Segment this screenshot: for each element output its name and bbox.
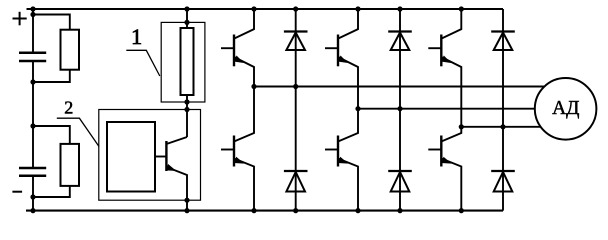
capacitor C1 [19, 53, 46, 61]
motor AD circle [535, 78, 597, 140]
diode VD1 [284, 32, 308, 51]
node VD5 on DC- [397, 208, 402, 213]
node VD4 on DC- [293, 208, 298, 213]
transistor VT6 emitter wire [441, 159, 461, 211]
wire left DC link upper segment [32, 9, 34, 53]
transistor VT1 base lead [221, 47, 234, 49]
transistor VT6 base bar [440, 136, 442, 167]
node VT1 on DC+ [251, 6, 256, 11]
transistor VT4 base bar [233, 136, 235, 167]
node wire crosses box2 top [184, 107, 189, 112]
node phase V at VD2 [397, 106, 402, 111]
node VT4 on DC- [251, 208, 256, 213]
wire phase line V [358, 108, 536, 110]
transistor VT7 base bar [165, 141, 167, 171]
wire left DC link lower segment [32, 176, 34, 211]
resistor R1 [61, 30, 80, 70]
wire brake column middle [186, 95, 188, 137]
box 1 brake resistor unit outline [161, 22, 205, 102]
transistor VT1 base bar [233, 35, 235, 67]
transistor VT7 emitter arrow [166, 164, 177, 171]
transistor VT3 emitter wire [441, 57, 461, 127]
wire R2 bottom lead [33, 186, 70, 197]
node C-midpoint R2 tap [30, 123, 35, 128]
transistor VT3 collector wire [441, 9, 461, 39]
resistor R2 [61, 144, 80, 186]
diode VD6 [491, 171, 515, 192]
resistor R3 (brake resistor) [181, 28, 194, 95]
transistor VT2 base bar [337, 35, 339, 67]
node phase U at VT1 [251, 84, 256, 89]
node R1 tap [30, 12, 35, 17]
svg-text:1: 1 [131, 24, 142, 49]
node phase U at VD1 [293, 84, 298, 89]
transistor VT3 base lead [428, 47, 441, 49]
transistor VT5 emitter wire [338, 159, 358, 211]
node DC+ / left link [30, 6, 35, 11]
diode VD3 [491, 32, 515, 51]
diode VD2 [388, 32, 412, 51]
transistor VT2 collector wire [338, 9, 358, 39]
wire negative DC bus (bottom) [26, 210, 503, 212]
transistor VT5 base lead [325, 149, 338, 151]
transistor VT2 emitter arrow [337, 55, 347, 63]
transistor VT4 emitter arrow [234, 157, 245, 164]
wire R1 top lead [33, 15, 70, 30]
transistor VT6 base lead [428, 149, 441, 151]
transistor VT5 base bar [337, 136, 339, 167]
transistor VT2 base lead [325, 47, 338, 49]
transistor VT4 collector wire [234, 87, 254, 142]
transistor VT4 base lead [221, 149, 234, 151]
node C1-R1 junction [30, 79, 35, 84]
wire positive DC bus (top) [27, 8, 504, 10]
wire diode column VD2/VD5 [399, 9, 401, 211]
wire left DC link middle segment [32, 61, 34, 168]
wire diode column VD1/VD4 [295, 9, 297, 211]
minus polarity symbol [12, 191, 22, 193]
wire phase line W [461, 126, 542, 128]
node VT5 on DC- [355, 208, 360, 213]
transistor VT3 base bar [440, 35, 442, 67]
transistor VT5 emitter arrow [338, 157, 349, 164]
diode VD5 [388, 171, 412, 192]
label 1 leader line [126, 50, 160, 76]
node phase W at VD3 [500, 124, 505, 129]
box 2 control unit outline [99, 110, 201, 201]
node VT3 on DC+ [459, 6, 464, 11]
node wire crosses box1 bottom [184, 99, 189, 104]
wire R2 top lead [33, 126, 70, 144]
transistor VT4 emitter wire [234, 159, 254, 211]
transistor VT7 collector wire [166, 137, 187, 144]
svg-text:АД: АД [552, 98, 579, 119]
transistor VT1 emitter wire [234, 57, 254, 87]
node VT2 on DC+ [355, 6, 360, 11]
node phase W at VT3 [459, 124, 464, 129]
transistor VT1 emitter arrow [233, 55, 243, 63]
label 2 leader line [57, 118, 99, 146]
transistor VT3 emitter arrow [441, 55, 451, 63]
node brake column on DC- [184, 208, 189, 213]
wire brake column top [186, 9, 188, 28]
wire R1 bottom lead [33, 70, 70, 82]
wire diode column VD3/VD6 [502, 9, 504, 211]
node wire crosses box1 top [184, 20, 189, 25]
transistor VT1 collector wire [234, 9, 254, 39]
node phase V at VT2 [355, 106, 360, 111]
wire U1 output to VT7 base [155, 156, 166, 158]
node VD2 on DC+ [397, 6, 402, 11]
capacitor C2 [19, 168, 46, 176]
transistor VT6 collector wire [441, 127, 461, 142]
transistor VT5 collector wire [338, 109, 358, 142]
driver block U1 [107, 122, 155, 192]
node brake column on DC+ [184, 6, 189, 11]
wire phase line U [254, 86, 546, 88]
node DC- / left link [30, 208, 35, 213]
node VT6 on DC- [459, 208, 464, 213]
svg-text:2: 2 [64, 98, 73, 118]
transistor VT2 emitter wire [338, 57, 358, 109]
transistor VT7 emitter wire [166, 167, 187, 211]
transistor VT6 emitter arrow [441, 157, 452, 164]
node R2-C2 junction [30, 194, 35, 199]
node VD1 on DC+ [293, 6, 298, 11]
plus polarity symbol [13, 12, 27, 25]
node wire crosses box2 bottom [184, 198, 189, 203]
diode VD4 [284, 171, 308, 192]
